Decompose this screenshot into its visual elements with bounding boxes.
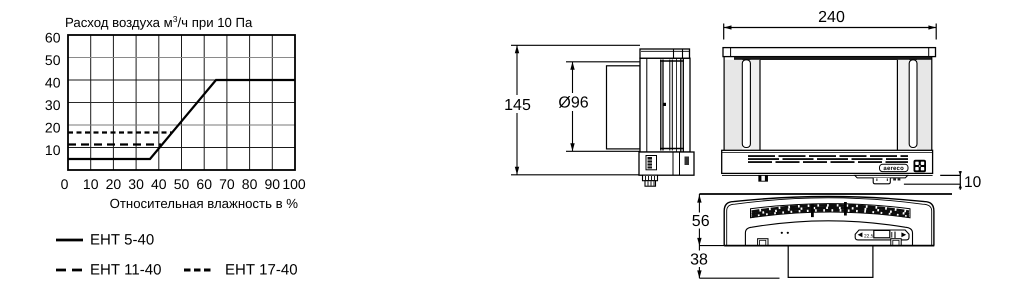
plan view grille band (751, 204, 911, 218)
side view body (640, 58, 690, 152)
curve EHT 17-40 dashed (68, 131, 172, 133)
plan view outer outline (724, 197, 934, 246)
plan view duct opening (788, 246, 873, 278)
svg-text:20: 20 (45, 120, 61, 136)
curve EHT 5-40 solid (68, 80, 295, 159)
front view vent slots (748, 156, 908, 162)
plan view grille dividers (811, 204, 814, 218)
dimension D96 (566, 62, 640, 152)
front view screws (893, 178, 896, 180)
side view inner vertical lines (647, 58, 684, 152)
plan view inner panel (745, 221, 912, 246)
chart grid verticals (91, 35, 273, 170)
svg-text:Относительная влажность в %: Относительная влажность в % (110, 196, 299, 211)
side view bottom band (639, 152, 694, 175)
svg-text:ЕНТ 11-40: ЕНТ 11-40 (90, 262, 161, 279)
svg-text:56: 56 (692, 213, 710, 230)
legend EHT 5-40 (56, 239, 83, 242)
svg-text:60: 60 (45, 30, 61, 46)
dimension 56 and 38 line (699, 194, 952, 278)
svg-text:30: 30 (45, 97, 61, 113)
front view cap (723, 48, 936, 57)
side view top cap (640, 49, 690, 58)
svg-text:10: 10 (83, 176, 99, 192)
plan view body bottom edge (724, 245, 934, 247)
x axis labels (61, 176, 306, 192)
front view bottom band (722, 150, 933, 173)
chart plot border (68, 35, 295, 170)
svg-text:aereco: aereco (883, 166, 904, 172)
svg-text:50: 50 (174, 176, 190, 192)
dimension 10 (904, 171, 960, 190)
plan view right foot (891, 239, 901, 246)
plan view dots (781, 232, 783, 234)
front view body outline (724, 57, 932, 151)
curve EHT 11-40 dashed (68, 143, 161, 145)
svg-text:145: 145 (504, 97, 531, 114)
svg-text:100: 100 (282, 176, 306, 192)
svg-text:70: 70 (219, 176, 235, 192)
svg-text:30: 30 (128, 176, 144, 192)
front view dark band (734, 57, 932, 60)
chart grid horizontals (68, 58, 295, 148)
svg-text:ЕНТ 5-40: ЕНТ 5-40 (90, 232, 154, 249)
dimension 145 (511, 45, 640, 175)
side view impeller marks (660, 60, 684, 62)
front view left foot (759, 175, 768, 181)
svg-text:40: 40 (151, 176, 167, 192)
svg-text:10: 10 (964, 174, 982, 191)
plan view left foot (758, 239, 768, 246)
plan view slot (855, 230, 909, 240)
svg-text:90: 90 (265, 176, 281, 192)
front view right pillar bar (909, 60, 917, 148)
aereco logo square (914, 160, 927, 172)
side view duct tube (607, 66, 641, 149)
svg-text:80: 80 (242, 176, 258, 192)
front view left pillar bar (742, 60, 750, 148)
svg-text:ЕНТ 17-40: ЕНТ 17-40 (225, 262, 298, 279)
side view terminal block (646, 156, 657, 170)
front view base line (722, 174, 933, 176)
front view body sides shading (724, 60, 742, 151)
legend EHT 11-40 (56, 269, 82, 272)
svg-text:240: 240 (818, 9, 845, 26)
svg-text:38: 38 (690, 251, 708, 268)
svg-text:0: 0 (61, 176, 69, 192)
dimension 240 (724, 24, 937, 40)
svg-text:50: 50 (45, 52, 61, 68)
svg-text:60: 60 (196, 176, 212, 192)
side view screw mark (685, 157, 690, 166)
svg-text:22,5: 22,5 (864, 233, 874, 239)
front view bottom tray (855, 175, 908, 178)
svg-text:10: 10 (45, 142, 61, 158)
aereco label box (880, 164, 909, 171)
plan view inner outline (727, 198, 932, 246)
side view cable gland (643, 175, 658, 181)
legend EHT 17-40 (184, 269, 212, 272)
y axis labels (45, 30, 61, 159)
svg-text:40: 40 (45, 75, 61, 91)
svg-text:Ø96: Ø96 (558, 94, 588, 111)
svg-text:20: 20 (106, 176, 122, 192)
svg-text:Расход воздуха м3/ч при 10 Па: Расход воздуха м3/ч при 10 Па (65, 14, 253, 30)
front view duct stub (873, 178, 890, 184)
